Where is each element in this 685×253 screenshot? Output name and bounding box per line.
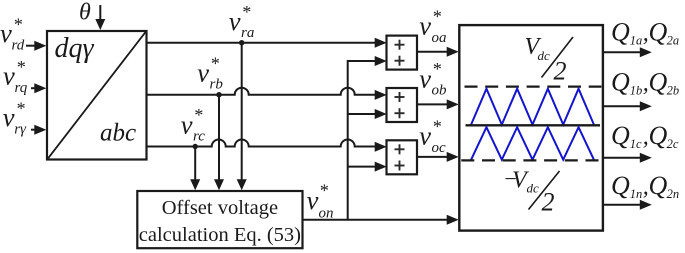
svg-text:*: * <box>242 2 251 22</box>
wire a (v*_ra) from transform block to summer 1 <box>147 38 387 48</box>
wire b (v*_rb) from transform block to summer 2 <box>147 88 387 100</box>
label -Vdc/2 <box>503 166 560 217</box>
svg-text:rc: rc <box>193 129 205 145</box>
label v*_on <box>307 181 334 222</box>
svg-text:rq: rq <box>15 80 28 96</box>
svg-text:v: v <box>181 110 193 140</box>
offset block text line 2 <box>139 224 301 246</box>
output arrow Q1n,Q2n <box>603 200 652 210</box>
svg-text:rγ: rγ <box>14 122 27 138</box>
label v*_ob <box>419 59 447 99</box>
output arrow Q1c,Q2c <box>603 153 652 163</box>
offset bus riser and branch to summer 1 <box>348 56 387 220</box>
wire c (v*_rc) from transform block to summer 3 <box>147 140 387 152</box>
svg-text:1c: 1c <box>630 137 642 151</box>
svg-text:abc: abc <box>100 120 136 147</box>
label v*_ra <box>229 2 255 41</box>
svg-text:2b: 2b <box>667 83 680 97</box>
svg-text:oa: oa <box>432 30 447 46</box>
drop wire from node b to offset block <box>214 96 224 191</box>
svg-text:2: 2 <box>554 57 567 86</box>
svg-text:v: v <box>197 58 209 88</box>
label dq-gamma <box>55 33 95 64</box>
label v*_rq input <box>3 57 28 96</box>
svg-text:v: v <box>419 121 431 151</box>
svg-text:ob: ob <box>432 83 448 99</box>
label Q1b,Q2b <box>611 68 679 98</box>
svg-text:rb: rb <box>210 77 224 93</box>
svg-text:dc: dc <box>527 180 540 195</box>
output arrow Q1b,Q2b <box>603 101 652 111</box>
input arrow v*_rd <box>26 41 46 51</box>
svg-text:oc: oc <box>432 140 447 156</box>
dq-gamma to abc transformation block U1 <box>47 31 147 160</box>
lower triangular carrier wave <box>471 127 594 160</box>
svg-text:Q: Q <box>649 171 668 200</box>
svg-text:1a: 1a <box>630 33 643 47</box>
svg-text:Q: Q <box>649 18 668 47</box>
summer S2 (adds v*_rb and v*_on) <box>387 88 418 122</box>
theta input arrow <box>95 5 105 30</box>
svg-text:Offset voltage: Offset voltage <box>162 197 278 219</box>
svg-text:on: on <box>319 205 334 221</box>
svg-text:*: * <box>432 6 441 26</box>
svg-text:ra: ra <box>241 25 254 41</box>
svg-text:v: v <box>3 102 15 132</box>
summer S3 (adds v*_rc and v*_on) <box>387 140 418 174</box>
svg-text:*: * <box>432 116 441 136</box>
svg-text:*: * <box>194 105 203 125</box>
svg-text:2a: 2a <box>667 33 680 47</box>
label v*_r&#947; input <box>3 98 27 137</box>
summer S2 output wire v*_ob <box>417 99 459 109</box>
svg-text:*: * <box>319 181 328 201</box>
svg-text:2n: 2n <box>667 187 680 201</box>
upper triangular carrier wave <box>471 89 594 125</box>
drop wire from node c to offset block <box>190 148 200 191</box>
drop wire from node a to offset block <box>237 44 247 191</box>
label theta <box>79 0 91 26</box>
lower carrier limit dashed line <box>461 159 601 161</box>
label Vdc/2 <box>525 34 574 86</box>
input arrow v*_r&#947; <box>31 125 46 135</box>
junction dot on wire a <box>239 40 244 45</box>
svg-text:*: * <box>16 98 25 118</box>
PWM comparator block <box>459 25 603 231</box>
svg-text:Q: Q <box>611 18 630 47</box>
output arrow Q1a,Q2a <box>603 47 652 57</box>
upper carrier limit dashed line <box>465 85 602 87</box>
svg-text:rd: rd <box>12 38 25 54</box>
svg-text:*: * <box>13 14 22 34</box>
svg-text:Q: Q <box>649 121 668 150</box>
label v*_oc <box>419 116 446 156</box>
summer S3 output wire v*_oc <box>417 152 459 162</box>
junction dot on wire b <box>216 92 221 97</box>
label v*_rc <box>181 105 205 144</box>
summer S1 output wire v*_oa <box>417 47 459 57</box>
svg-text:Q: Q <box>611 121 630 150</box>
svg-text:calculation Eq. (53): calculation Eq. (53) <box>139 224 301 246</box>
svg-text:v: v <box>419 63 431 93</box>
summer S1 (adds v*_ra and v*_on) <box>387 36 418 70</box>
label Q1c,Q2c <box>611 121 679 151</box>
svg-text:*: * <box>210 53 219 73</box>
svg-text:Q: Q <box>649 68 668 97</box>
svg-text:dqγ: dqγ <box>55 33 95 64</box>
svg-text:Q: Q <box>611 68 630 97</box>
svg-text:2: 2 <box>542 188 555 217</box>
input arrow v*_rq <box>31 83 46 93</box>
offset block text line 1 <box>162 197 278 219</box>
offset bus branch to summer 3 <box>348 162 387 172</box>
svg-text:*: * <box>16 57 25 77</box>
svg-text:1b: 1b <box>630 83 643 97</box>
offset bus branch to summer 2 <box>348 109 387 119</box>
svg-text:2c: 2c <box>667 137 679 151</box>
wire v*_on from offset block to PWM block <box>303 215 459 225</box>
label Q1a,Q2a <box>611 18 679 48</box>
svg-text:dc: dc <box>538 48 551 63</box>
zero reference solid line <box>466 124 601 126</box>
label abc <box>100 120 136 147</box>
svg-text:v: v <box>0 18 12 48</box>
svg-text:*: * <box>432 59 441 79</box>
label v*_rb <box>197 53 223 92</box>
svg-text:v: v <box>307 185 319 215</box>
svg-text:Q: Q <box>611 171 630 200</box>
label Q1n,Q2n <box>611 171 679 201</box>
offset voltage calculation block <box>137 191 302 248</box>
svg-text:θ: θ <box>79 0 91 26</box>
label v*_rd input <box>0 14 25 53</box>
svg-text:1n: 1n <box>630 187 643 201</box>
label v*_oa <box>419 6 446 46</box>
svg-text:v: v <box>229 6 241 36</box>
junction dot on wire c <box>193 144 198 149</box>
svg-text:v: v <box>419 11 431 41</box>
svg-text:v: v <box>3 61 15 91</box>
